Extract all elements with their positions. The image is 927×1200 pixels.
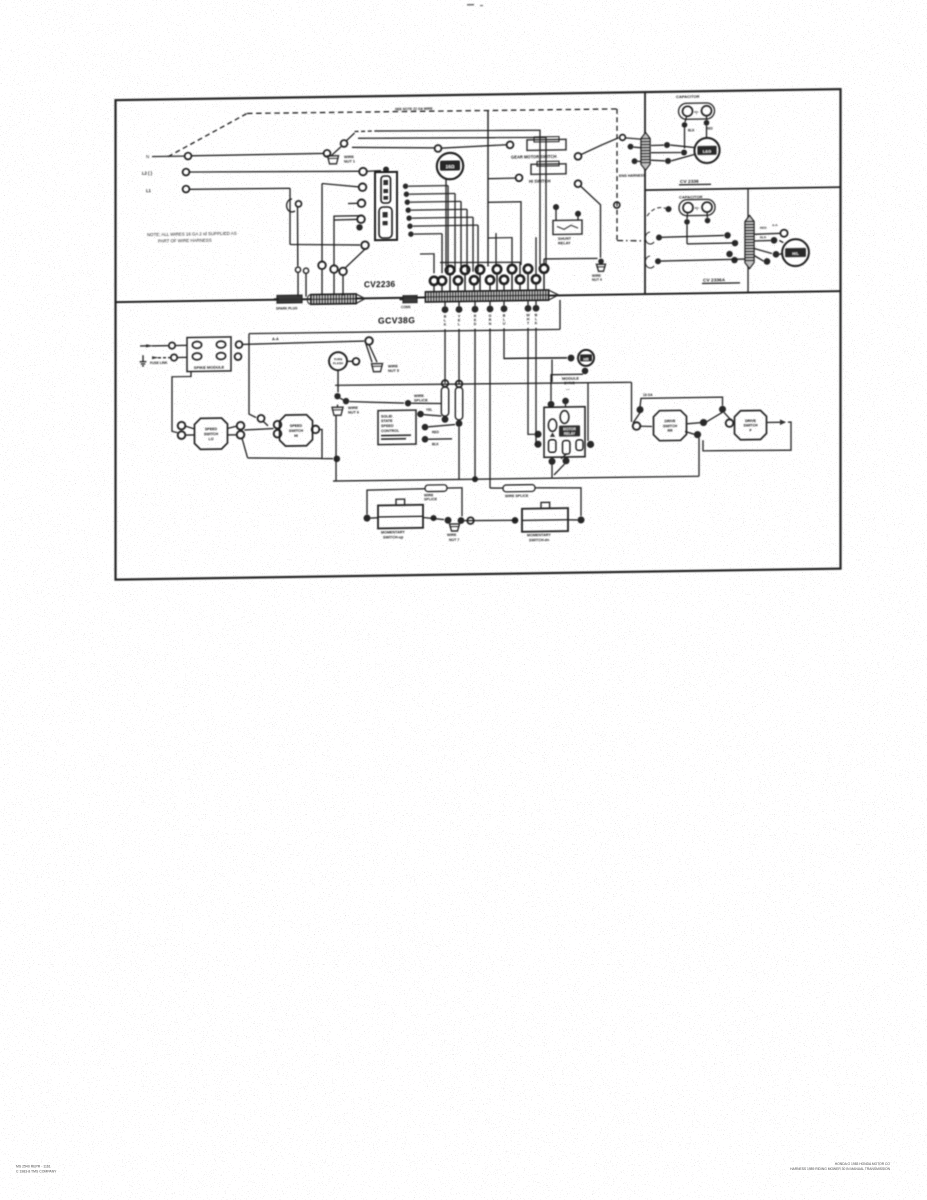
terminal mom left end [364, 515, 371, 522]
wire key left 3 stub [348, 202, 358, 204]
svg-text:GEAR MOTOR SWITCH: GEAR MOTOR SWITCH [511, 154, 556, 160]
capacitor C1 terminal a [682, 122, 688, 128]
drive switch F body [735, 410, 767, 439]
wire pin 6 run [413, 224, 478, 227]
wire motor stub c [651, 160, 665, 161]
terminal drive left top [637, 406, 644, 413]
splice S2 body [455, 387, 462, 420]
terminal hl d [771, 237, 778, 244]
motor terminal a [664, 142, 670, 148]
terminal HI out end [334, 455, 341, 462]
wire GCV38G stub 6 [527, 301, 529, 305]
wire panel a run [662, 236, 724, 238]
terminal hl top [780, 230, 787, 237]
wire chain stub [337, 405, 339, 408]
terminal hl f [764, 258, 771, 265]
svg-text:RELAY: RELAY [558, 241, 571, 245]
capacitor C2 cell 1 [683, 203, 693, 213]
terminal L2 [183, 169, 190, 176]
gear motor switch terminal 1 [507, 141, 514, 148]
wire pin 3 run [410, 200, 461, 203]
wire speed riser link [263, 421, 268, 426]
bottom rail [333, 475, 699, 481]
wire drive outB slant [685, 431, 694, 434]
svg-text:CV2236: CV2236 [364, 280, 396, 289]
dashed top bus [247, 108, 617, 115]
wire GCV38G stub 3 [474, 302, 476, 306]
horn HN1 [437, 153, 463, 180]
connector CV2236 upper stub 5 [511, 274, 513, 292]
svg-text:CONN: CONN [401, 305, 411, 309]
wire motor link c [671, 154, 695, 161]
wire switch to engine bullet [581, 138, 619, 155]
wire GCV38G stub 2 [458, 302, 460, 306]
wire horn feed [352, 146, 435, 149]
relay top terminal b [562, 398, 569, 405]
key switch pin 7 [408, 231, 413, 236]
svg-text:NUT 4: NUT 4 [592, 278, 602, 282]
wire N lead [152, 155, 184, 157]
capacitor C2 stub b [706, 212, 708, 217]
wire mom right link [568, 519, 577, 521]
capacitor C1 stub b [706, 116, 708, 120]
key switch left terminal 3 [358, 199, 366, 207]
wire mom left riser [367, 489, 425, 515]
connector CV2236 lower terminal 4 [470, 276, 478, 284]
wire pin 4 run [411, 208, 467, 211]
wire spike drop [172, 372, 191, 433]
key switch pin 3 [405, 199, 410, 204]
connector CV2236 lower stub 1 [433, 285, 435, 294]
connector CV2236 lower stub 2 [441, 285, 443, 294]
svg-text:WIRE: WIRE [414, 394, 424, 398]
relay slot A [560, 411, 569, 424]
connector GCV38G terminal 6 [525, 305, 532, 312]
svg-text:GCV38G: GCV38G [378, 315, 415, 326]
wire nut WN7 [450, 524, 460, 531]
wire nut WN5 [372, 364, 383, 372]
wire shunt column join [544, 258, 598, 259]
svg-text:SWITCH-up: SWITCH-up [383, 535, 404, 539]
svg-text:16Ω: 16Ω [446, 164, 455, 169]
terminal small pair b [303, 268, 308, 273]
capacitor C1 terminal b [704, 120, 710, 126]
wire panel b run [661, 259, 748, 261]
terminal feed a [169, 342, 175, 348]
svg-text:BLK: BLK [760, 235, 767, 239]
svg-text:SPIKE MODULE: SPIKE MODULE [194, 365, 225, 370]
svg-text:NUT 5: NUT 5 [388, 369, 399, 373]
gear motor switch GS1 body [527, 139, 566, 150]
right panel horizontal divider [645, 187, 841, 190]
speed switch HI terminal R [312, 426, 320, 434]
svg-text:D: D [474, 322, 477, 326]
wire key top stub [367, 170, 381, 173]
key switch left terminal 5 [356, 224, 362, 230]
key switch pin 1 [403, 184, 408, 189]
wire nut WN6 [332, 407, 343, 415]
svg-text:DRIVE: DRIVE [665, 419, 677, 423]
terminal chain a [334, 393, 340, 399]
splice S1 body [441, 387, 448, 416]
terminal hl a [732, 240, 738, 246]
speed switch LO body [195, 418, 228, 450]
key switch pin 6 [407, 223, 412, 228]
wire splice4 left [490, 487, 503, 489]
section divider line [116, 291, 841, 302]
wire pin 7 run [414, 233, 442, 235]
connector CV2236 upper stub 2 [464, 274, 466, 292]
dash-dot stub to engine connector [617, 240, 646, 241]
wire fan b [366, 344, 372, 362]
shunt relay SR1 body [553, 220, 582, 234]
hi switch HS1 body [531, 164, 566, 175]
wire relay top b stub [565, 404, 567, 407]
connector CV2236 lower terminal 6 [500, 276, 508, 284]
terminal small pair a [295, 267, 300, 272]
terminal lever [341, 140, 348, 147]
wire mom left link [370, 517, 378, 519]
svg-text:CAPACITOR: CAPACITOR [679, 194, 703, 199]
relay slot B [548, 419, 556, 432]
speed switch HI terminal L1 [274, 421, 282, 429]
spike module pin 4 [216, 353, 225, 360]
spike module pin 1 [192, 341, 201, 348]
wire drive in links [633, 413, 640, 423]
relay bottom terminal b [563, 457, 570, 464]
speed switch LO terminal L1 [178, 422, 186, 430]
connector GCV38G terminal 1 [442, 306, 449, 313]
terminal hl c [731, 257, 737, 263]
wire drop relay col 2 [534, 328, 536, 445]
connector GCV38G terminal 5 [501, 305, 508, 312]
shunt relay terminal a [553, 204, 559, 210]
connector CV2236 lower stub 3 [457, 285, 459, 294]
wire fan a [369, 345, 377, 363]
ECU terminal 3 [422, 436, 429, 443]
key switch KS1 outer [375, 172, 397, 240]
svg-text:SHUNT: SHUNT [558, 237, 572, 241]
svg-text:NUT 1: NUT 1 [344, 160, 355, 164]
svg-text:SYNC: SYNC [564, 380, 575, 385]
wire GCV38G stub 5 [503, 301, 505, 305]
wire speed riser [249, 334, 256, 418]
horn B+ wire [442, 145, 507, 148]
spike module pin 2 [216, 341, 225, 348]
ECU terminal 1 [417, 411, 424, 418]
hi switch terminal 1 [516, 174, 523, 181]
hook arc small a [645, 232, 654, 244]
relay label [559, 425, 580, 436]
spike module SM1 box [187, 337, 231, 372]
connector CV2236 lower terminal 8 [532, 275, 540, 283]
svg-text:HONDA G 1983 HONDA MOTOR CO: HONDA G 1983 HONDA MOTOR CO [835, 1162, 891, 1166]
spike module right terminal 1 [236, 341, 243, 348]
wire C1 lead a [684, 128, 686, 149]
bullet connector engine harness [641, 133, 650, 171]
wire horn drop [445, 179, 447, 266]
wire GCV38G stub 7 [535, 301, 537, 305]
svg-text:DRIVE: DRIVE [745, 419, 757, 423]
wire lever link [332, 147, 342, 156]
wire left bar c stub [342, 275, 344, 295]
relay slot D [563, 440, 570, 454]
svg-text:C 1983-8 TMS COMPANY: C 1983-8 TMS COMPANY [16, 1169, 57, 1173]
terminal at wire nut 1 [324, 150, 331, 157]
terminal loop corner [719, 406, 726, 413]
svg-text:MOMENTARY: MOMENTARY [527, 533, 551, 537]
terminal on dashed drop [614, 202, 620, 208]
svg-text:MOMENTARY: MOMENTARY [381, 530, 405, 534]
wire L1 drop [289, 188, 291, 244]
svg-text:N: N [146, 154, 149, 159]
wire left bar a drop [321, 186, 323, 261]
wire pin 6 drop [477, 225, 479, 272]
svg-text:U: U [503, 322, 506, 326]
relay arrow mark [550, 432, 555, 437]
arrow feed b [152, 356, 159, 359]
connector CV2236 upper terminal 3 [476, 265, 484, 274]
relay left terminal a [535, 431, 542, 438]
terminal A-A end [365, 337, 373, 345]
svg-text:STATE: STATE [381, 419, 393, 423]
svg-text:PART OF WIRE HARNESS: PART OF WIRE HARNESS [158, 237, 212, 243]
wire between speed switches [244, 429, 273, 430]
wire bottom link [248, 457, 323, 460]
svg-text:SPEED: SPEED [381, 424, 394, 428]
ground symbol battery [142, 355, 144, 362]
wire cluster out [349, 401, 404, 404]
wire relay bottom slant [554, 464, 565, 475]
connector GCV38G terminal 4 [487, 306, 494, 313]
connector CV2236 lower stub 7 [519, 284, 521, 293]
connector CV2236 upper terminal 1 [446, 266, 454, 275]
wire speed bus drop [559, 300, 561, 330]
terminal flasher out [353, 358, 360, 365]
wire splice feed run [411, 403, 441, 404]
terminal drive sw2 in [726, 419, 734, 427]
svg-text:SOLID: SOLID [381, 414, 393, 418]
svg-text:K: K [444, 323, 447, 327]
dashed hook to C2 [647, 207, 666, 216]
key switch left terminal 2 [359, 183, 367, 191]
svg-text:SWITCH: SWITCH [743, 423, 758, 427]
terminal C2 hook in [666, 206, 672, 212]
wire drop to splice A [444, 329, 446, 383]
wire pin 3 drop [460, 201, 462, 272]
connector bar CV2236 left [311, 294, 356, 304]
terminal relay top in [548, 401, 555, 408]
connector CV2236 upper terminal 6 [524, 265, 532, 274]
key switch top pin [383, 166, 389, 172]
wire A-A run [243, 341, 364, 344]
wire LO left links [185, 426, 194, 429]
connector CV2236 upper stub 6 [527, 273, 529, 291]
spike module right terminal 2 [235, 353, 242, 360]
wire LO bottom slant [242, 438, 248, 458]
wire hl links [754, 239, 771, 241]
splice S4 body [503, 485, 535, 492]
wire left bar a top [321, 184, 323, 187]
wire nut6 drop to rail [335, 416, 337, 481]
wire mesh branch 4 [535, 237, 537, 275]
svg-text:NUT 7: NUT 7 [449, 538, 459, 542]
wire feed a [152, 345, 168, 347]
wire left bar b path [334, 216, 360, 265]
wire pin 7 drop [441, 234, 443, 274]
terminal drive sw1 outB [694, 431, 701, 438]
terminal panel left b [655, 258, 661, 264]
svg-text:K: K [535, 321, 538, 325]
connector CV2236 upper stub 4 [496, 274, 498, 292]
svg-text:RELAY: RELAY [564, 432, 576, 436]
wire drive outA slant [687, 423, 700, 424]
right panel vertical divider [644, 92, 646, 294]
drive switch RR body [654, 410, 687, 441]
speed switch LO terminal L2 [178, 431, 186, 439]
wire pin 1 run [408, 185, 448, 188]
key switch pin 4 [406, 207, 411, 212]
svg-text:RED: RED [432, 430, 440, 434]
wire top mesh run A [375, 128, 540, 267]
svg-text:FLASH: FLASH [333, 361, 343, 365]
terminal left bar a [318, 261, 326, 269]
svg-text:CAPACITOR: CAPACITOR [676, 94, 700, 99]
gear motor M1 [694, 138, 719, 164]
wire C1 lead b [706, 126, 708, 138]
wire mesh hi branch [488, 202, 521, 266]
headlight motor M2 [782, 239, 809, 266]
wire pin 2 run [409, 192, 455, 195]
terminal mom mid b [445, 517, 452, 524]
wire nut 4 cup [597, 264, 606, 271]
wire key left 2 [322, 183, 359, 187]
speed switch LO terminal R2 [237, 431, 245, 439]
wire loop top [640, 397, 723, 407]
relay right terminal [587, 441, 594, 448]
horn terminal [435, 145, 442, 152]
wire LO right links [228, 426, 237, 428]
wire N run [192, 153, 325, 155]
terminal hl e [773, 251, 780, 258]
wire pin 1 drop [447, 186, 449, 273]
ECU terminal 2 [422, 424, 429, 431]
connector CV2236 lower stub 8 [535, 283, 537, 292]
connector CV2236 upper terminal 4 [493, 265, 501, 274]
terminal engine feed c [632, 158, 638, 164]
terminal left bar c [339, 268, 347, 276]
svg-text:NUT 6: NUT 6 [348, 410, 359, 414]
splice S2 bottom terminal [456, 420, 463, 427]
wire motor stub b [651, 151, 681, 154]
terminal hook [296, 201, 302, 207]
svg-text:A-A: A-A [772, 223, 778, 227]
capacitor C2 terminal b [705, 218, 711, 224]
svg-text:BLK: BLK [432, 442, 439, 446]
wire hr feed [504, 357, 567, 358]
wire GCV38G stub 4 [489, 301, 491, 305]
connector GCV38G terminal 3 [472, 306, 479, 313]
hook arc small b [645, 256, 654, 268]
terminal L1 [183, 186, 190, 193]
wire drop long 1 [474, 329, 476, 479]
wire loop into sw2 [707, 412, 723, 422]
wire chain link [340, 398, 343, 400]
svg-text:HR: HR [583, 357, 589, 361]
terminal mom right end [578, 516, 585, 523]
svg-text:SPLICE: SPLICE [414, 398, 428, 402]
right panel inner vertical [747, 189, 749, 293]
key switch slot 2 [379, 207, 392, 238]
wire top mesh run B [358, 135, 546, 267]
svg-text:SWITCH: SWITCH [663, 424, 678, 428]
speed switch HI terminal L2 [274, 430, 282, 438]
connector CV2236 upper stub 7 [543, 273, 545, 291]
terminal engine feed a [620, 135, 626, 141]
svg-text:+|−: +|− [695, 206, 700, 210]
wire drop hr column [504, 327, 567, 359]
wire motor link a [670, 145, 695, 148]
relay top terminal a [551, 394, 553, 396]
wire relay slotD slant [561, 454, 566, 458]
wire HI out [319, 429, 333, 459]
wire mom mid link2 [464, 520, 518, 521]
svg-text:H/L: H/L [792, 251, 799, 256]
hi switch terminal 2 [575, 180, 582, 187]
center tall drop [487, 111, 489, 267]
svg-text:N: N [489, 322, 492, 326]
wire mom right riser [535, 487, 581, 517]
wire hr left hook [551, 374, 583, 400]
wire pin 5 run [412, 216, 473, 219]
speed switch HI body [280, 415, 313, 447]
connector CV2236 lower terminal 5 [486, 276, 494, 284]
long control wire [335, 381, 632, 387]
terminal chain b [343, 398, 349, 404]
wire hook riser [297, 207, 299, 266]
connector CV2236 upper stub 1 [449, 274, 451, 292]
capacitor C1 stub a [685, 116, 687, 122]
wire shunt stub b [577, 217, 579, 221]
svg-text:HI SWITCH: HI SWITCH [529, 178, 550, 183]
svg-text:+|−: +|− [694, 110, 699, 114]
wire mesh branch 2 [488, 238, 512, 266]
wire feed a2 [175, 344, 187, 346]
splice S1 bottom terminal [442, 416, 449, 423]
dashed drop at key switch column [616, 109, 618, 241]
wire ECU t3 [428, 438, 452, 440]
connector CV2236 lower stub 5 [489, 284, 491, 293]
svg-text:A-A: A-A [272, 337, 279, 341]
wire return loop [703, 422, 791, 451]
wire ECU t2 [428, 425, 455, 427]
wire key left 4 [334, 218, 357, 221]
key switch slot 1 [381, 176, 391, 203]
terminal feed b [171, 354, 177, 360]
connector CV2236 lower terminal 2 [438, 277, 446, 285]
wire L1 run [190, 188, 291, 190]
svg-text:L&G: L&G [703, 149, 711, 154]
svg-text:FUSE LINK: FUSE LINK [150, 361, 168, 365]
wire flasher drop [337, 370, 339, 392]
wire splice3 out [447, 488, 462, 517]
wire lever up [347, 133, 355, 141]
wire hi switch out [581, 186, 601, 258]
svg-text:WIRE: WIRE [447, 533, 457, 537]
svg-text:ENG HARNESS: ENG HARNESS [619, 173, 646, 177]
inline connector blob [403, 296, 417, 303]
wire relay feed riser [551, 360, 553, 383]
